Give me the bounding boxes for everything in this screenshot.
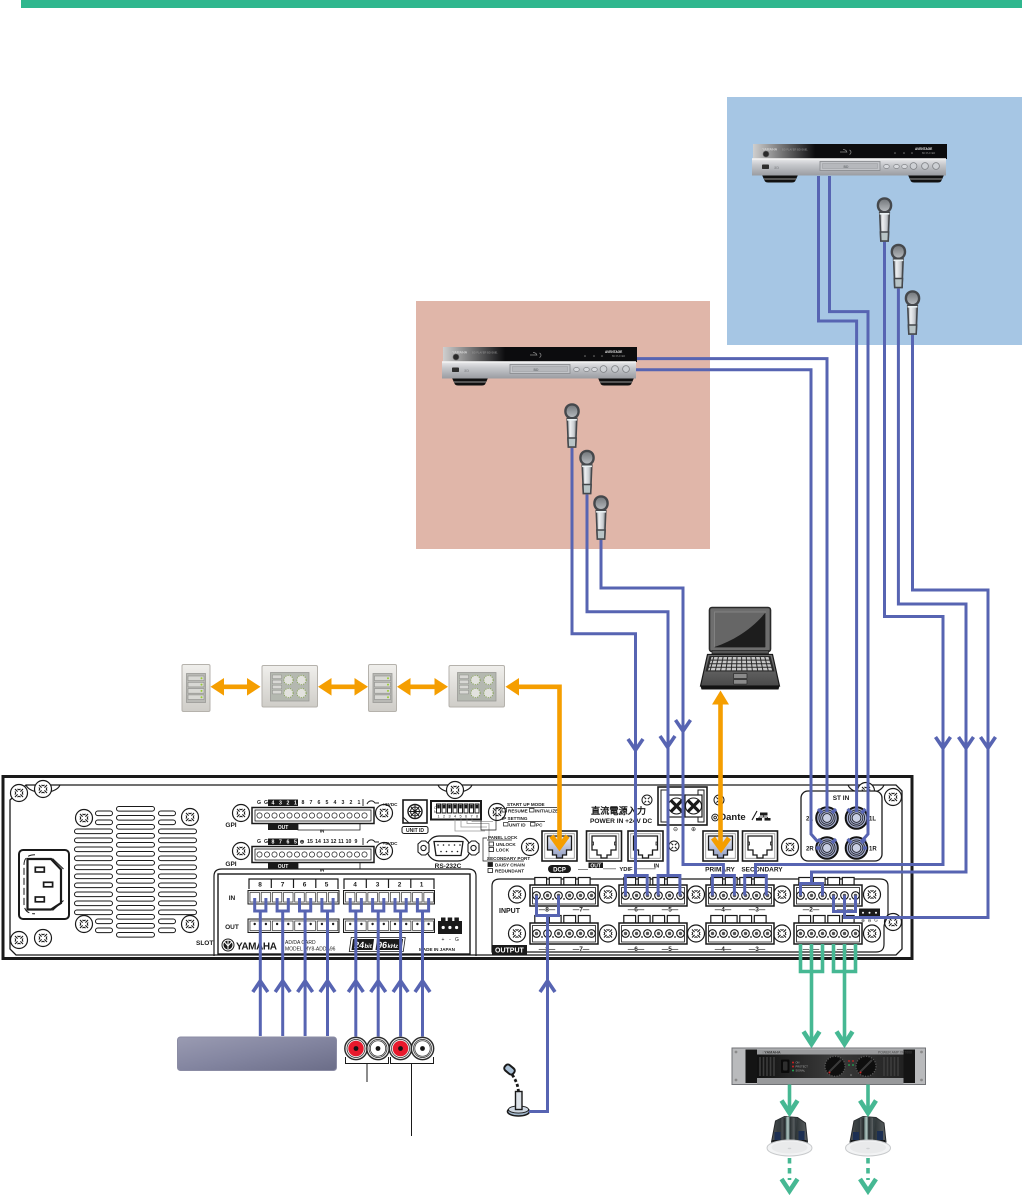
svg-text:PROTECT: PROTECT (796, 1065, 809, 1069)
svg-text:6: 6 (465, 815, 467, 819)
svg-text:1R: 1R (869, 847, 877, 853)
orange inter-panel double arrows (219, 684, 440, 689)
svg-text:PRIMARY: PRIMARY (705, 867, 735, 874)
svg-text:2: 2 (443, 815, 445, 819)
svg-text:IP SETTING: IP SETTING (502, 816, 528, 821)
svg-text:YDIF: YDIF (619, 867, 633, 873)
svg-text:IN: IN (320, 868, 325, 873)
wire: blue room mic1 to INPUT ch3 (756, 242, 944, 875)
svg-text:4: 4 (272, 801, 275, 807)
svg-text:—7—: —7— (573, 907, 590, 914)
paging gooseneck microphone (503, 1063, 529, 1116)
svg-text:—4—: —4— (715, 907, 732, 914)
green flow chevrons (782, 1032, 877, 1192)
svg-text:—5—: —5— (662, 907, 679, 914)
svg-text:1: 1 (420, 882, 424, 889)
blu-ray player (blue room) (752, 144, 947, 183)
svg-text:G: G (264, 839, 268, 845)
svg-text:8: 8 (258, 882, 262, 889)
svg-text:N: N (434, 810, 437, 814)
svg-text:9: 9 (355, 839, 358, 845)
24bit 96kHz badges (349, 938, 405, 952)
MRX7-D rear panel chassis (3, 777, 912, 959)
svg-text:—6—: —6— (628, 907, 645, 914)
settings text block (START UP MODE / PANEL LOCK / SECONDARY PORT) (481, 802, 558, 874)
OUT strip terminal dots (254, 923, 430, 925)
svg-text:YAMAHA: YAMAHA (236, 942, 277, 953)
DCP wall panel small 2 (369, 665, 397, 712)
GPI terminal block 1 (252, 799, 379, 831)
svg-text:GPI: GPI (225, 861, 236, 868)
RS-232C connector (418, 836, 479, 870)
svg-text:5: 5 (326, 800, 329, 806)
svg-text:UNIT ID: UNIT ID (509, 823, 526, 828)
svg-text:8: 8 (272, 840, 275, 846)
svg-text:直流電源入力: 直流電源入力 (591, 805, 646, 816)
svg-text:—3—: —3— (749, 907, 766, 914)
wire: pink player out-R to ST IN 2R (634, 370, 818, 842)
input channel number labels (539, 907, 854, 914)
svg-text:7: 7 (310, 800, 313, 806)
aux 4-pin connector (859, 909, 880, 918)
microphone blue-2 (892, 245, 905, 288)
wire: blue room mic2 to INPUT ch2 (812, 289, 967, 884)
svg-text:⊕: ⊕ (691, 827, 696, 833)
svg-text:3: 3 (376, 882, 380, 889)
microphone blue-3 (906, 291, 919, 334)
purple mixer box (178, 1037, 337, 1071)
svg-text:+5VDC: +5VDC (383, 841, 399, 846)
svg-text:AD/DA CARD: AD/DA CARD (285, 940, 316, 946)
svg-text:INITIALIZE: INITIALIZE (535, 809, 558, 814)
svg-text:3: 3 (342, 800, 345, 806)
svg-text:8: 8 (476, 815, 478, 819)
INPUT/OUTPUT section outline (492, 879, 888, 952)
ventilation slots (75, 807, 197, 938)
svg-text:1: 1 (437, 815, 439, 819)
power amplifier (732, 1048, 926, 1085)
wire: pink player out-L to ST IN 2L (634, 359, 827, 812)
svg-text:OUT: OUT (278, 825, 289, 831)
IN terminal strips (248, 891, 339, 905)
svg-text:⊖: ⊖ (673, 827, 678, 833)
svg-text:4: 4 (334, 800, 337, 806)
INPUT euroblock ch8-7 (530, 878, 598, 907)
svg-text:OUT: OUT (225, 924, 239, 931)
RCA plug prongs on ST IN jacks (816, 809, 867, 848)
svg-text:6: 6 (318, 800, 321, 806)
wire: blue player out-L to ST IN 1L (819, 176, 857, 812)
svg-text:7: 7 (279, 840, 282, 846)
green speaker wires (790, 944, 869, 1110)
svg-text:POWER IN +24V DC: POWER IN +24V DC (590, 818, 652, 825)
svg-text:12: 12 (331, 839, 337, 845)
svg-text:3: 3 (279, 801, 282, 807)
svg-text:3: 3 (448, 815, 450, 819)
svg-text:PC: PC (536, 823, 543, 828)
svg-text:G: G (264, 800, 268, 806)
svg-text:REDUNDANT: REDUNDANT (495, 869, 524, 874)
svg-text:15: 15 (307, 839, 313, 845)
svg-text:MADE IN JAPAN: MADE IN JAPAN (419, 947, 456, 952)
OUTPUT euroblock ch2-1 (794, 916, 862, 945)
svg-text:—3—: —3— (749, 946, 766, 953)
svg-text:1L: 1L (869, 817, 876, 823)
svg-text:+: + (442, 937, 445, 943)
svg-text:IN: IN (320, 829, 325, 834)
wire: pink room mic1 to INPUT ch6 (572, 448, 636, 875)
laptop computer (701, 608, 780, 690)
microphone blue-1 (878, 198, 891, 241)
svg-text:5: 5 (459, 815, 461, 819)
svg-text:◌YAMAHA: ◌YAMAHA (762, 1051, 781, 1055)
OUTPUT euroblock ch8-7 (530, 916, 598, 945)
svg-text:DAISY CHAIN: DAISY CHAIN (495, 863, 525, 868)
svg-text:SLOT: SLOT (196, 940, 213, 947)
svg-text:OUT: OUT (590, 863, 601, 869)
microphone pink-2 (580, 451, 593, 494)
svg-text:OUTPUT: OUTPUT (495, 948, 525, 955)
OUTPUT euroblock ch6-5 (619, 916, 687, 945)
blue flow chevrons (up) (253, 981, 555, 992)
Dante SECONDARY port (743, 831, 778, 861)
bracket leader line 1 (346, 1057, 389, 1082)
svg-text:DCP: DCP (553, 868, 566, 874)
YAMAHA logo on card (222, 939, 277, 953)
svg-text:8: 8 (302, 800, 305, 806)
svg-text:SECONDARY: SECONDARY (741, 867, 783, 874)
wire: pink room mic3 to INPUT ch4 (601, 540, 723, 875)
DIP switch block (431, 801, 493, 860)
orange DCP daisy-chain wire (514, 687, 721, 849)
svg-text:G: G (257, 800, 261, 806)
wire: blue player out-R to ST IN 1R (830, 176, 869, 842)
orange chevrons (506, 678, 730, 849)
svg-text:5: 5 (325, 882, 329, 889)
svg-text:6: 6 (303, 882, 307, 889)
svg-text:1: 1 (294, 801, 297, 807)
microphone pink-1 (565, 404, 578, 447)
OUTPUT euroblock ch4-3 (706, 916, 774, 945)
AC power inlet (19, 850, 69, 919)
output channel number labels (539, 946, 854, 953)
svg-text:2: 2 (398, 882, 402, 889)
svg-text:UNIT ID: UNIT ID (406, 828, 424, 834)
UNIT ID rotary switch (402, 800, 428, 834)
svg-text:GPI: GPI (225, 822, 236, 829)
GPI terminal block 2 (252, 838, 379, 870)
svg-text:IN: IN (229, 895, 236, 902)
svg-text:—7—: —7— (573, 946, 590, 953)
svg-text:+5VDC: +5VDC (383, 802, 399, 807)
svg-text:10: 10 (346, 839, 352, 845)
svg-text:ST IN: ST IN (833, 795, 850, 802)
svg-text:G: G (257, 839, 261, 845)
svg-text:2R: 2R (806, 847, 814, 853)
blue flow chevrons (down) (628, 720, 996, 750)
ceiling speaker 2 (846, 1117, 891, 1157)
svg-text:SECONDARY PORT: SECONDARY PORT (487, 856, 530, 861)
DCP port (542, 831, 577, 861)
svg-text:RESUME: RESUME (508, 809, 528, 814)
svg-text:INPUT: INPUT (499, 908, 521, 915)
YDIF IN port (628, 831, 663, 861)
blu-ray player (pink room) (442, 347, 637, 386)
svg-text:2: 2 (287, 801, 290, 807)
ST IN panel (801, 791, 882, 861)
svg-text:14: 14 (315, 839, 321, 845)
svg-text:—8—: —8— (539, 907, 556, 914)
SLOT area outline (214, 869, 476, 956)
svg-text:13: 13 (323, 839, 329, 845)
bracket leader line 2 (391, 1057, 434, 1136)
YDIF OUT port (587, 831, 622, 861)
microphone pink-3 (594, 496, 607, 539)
pink room region (416, 301, 710, 549)
svg-text:4: 4 (454, 815, 456, 819)
svg-text:—6—: —6— (628, 946, 645, 953)
channel header boxes 8-5 (249, 879, 434, 889)
svg-text:kHz: kHz (387, 944, 398, 950)
svg-text:2: 2 (350, 800, 353, 806)
svg-text:⊕: ⊕ (300, 840, 305, 846)
svg-text:UNLOCK: UNLOCK (496, 842, 516, 847)
wire: paging mic to INPUT ch8 (529, 915, 548, 1112)
svg-text:—4—: —4— (715, 946, 732, 953)
svg-text:START UP MODE: START UP MODE (507, 802, 545, 807)
MY8-ADDA96 slot card (218, 874, 470, 954)
svg-text:5: 5 (294, 840, 297, 846)
DCP wall panel large 2 (449, 666, 505, 708)
INPUT euroblock ch6-5 (619, 878, 687, 907)
wires: slot card IN ch8-ch5 to CD/mixer (255, 898, 266, 1036)
svg-text:4: 4 (353, 882, 357, 889)
svg-text:PANEL LOCK: PANEL LOCK (488, 835, 518, 840)
top green bar (21, 0, 1022, 8)
svg-text:bit: bit (364, 944, 372, 950)
wire: blue room mic3 to INPUT ch1 (845, 335, 989, 918)
RCA jack white 1 (367, 1037, 389, 1059)
Dante logo (711, 811, 771, 823)
wire: pink room mic2 to INPUT ch5 (587, 495, 668, 876)
svg-text:6: 6 (287, 840, 290, 846)
3-pin euro connector on card (438, 921, 462, 934)
svg-text:ON: ON (796, 1061, 800, 1065)
svg-text:7: 7 (281, 882, 285, 889)
svg-text:◎Dante: ◎Dante (711, 812, 746, 823)
svg-text:POWER AMP XP7000: POWER AMP XP7000 (878, 1051, 912, 1055)
wires: slot card IN ch4-ch1 to RCA jacks (350, 898, 361, 1037)
svg-text:—2—: —2— (803, 907, 820, 914)
Dante PRIMARY port (plugged) (703, 831, 738, 861)
blue room region (727, 97, 1022, 345)
svg-text:7: 7 (470, 815, 472, 819)
POWER IN 24V DC connector (590, 787, 707, 833)
INPUT euroblock ch2-1 (794, 878, 862, 907)
svg-text:11: 11 (338, 839, 344, 845)
svg-text:—5—: —5— (662, 946, 679, 953)
svg-text:G: G (455, 937, 459, 943)
INPUT euroblock ch4-3 (706, 878, 774, 907)
RCA jack white 2 (411, 1037, 433, 1059)
RCA jack red 2 (389, 1037, 411, 1059)
svg-text:LOCK: LOCK (496, 848, 510, 853)
svg-text:SIGNAL: SIGNAL (796, 1069, 806, 1073)
svg-text:1: 1 (358, 800, 361, 806)
